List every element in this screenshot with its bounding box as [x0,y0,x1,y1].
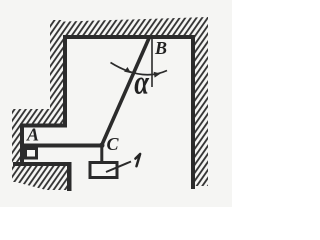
svg-text:A: A [26,125,39,145]
svg-text:B: B [154,38,167,58]
svg-text:α: α [134,64,150,102]
svg-text:C: C [107,134,120,154]
